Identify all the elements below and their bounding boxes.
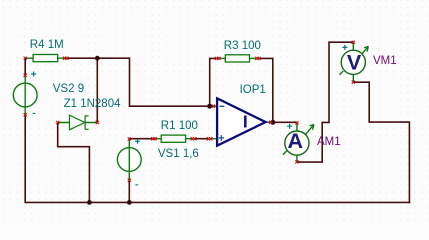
VM1 plus sign	[342, 45, 347, 50]
svg-text:R1 100: R1 100	[161, 120, 198, 132]
svg-text:AM1: AM1	[317, 136, 341, 148]
VM1 top pin mark	[352, 41, 355, 44]
junction node at inverting input	[207, 104, 212, 109]
voltage source VS1 circle	[117, 148, 141, 172]
wire: bottom rail	[24, 201, 410, 203]
AM1 arrowhead	[310, 125, 314, 130]
VS2 minus sign	[33, 112, 36, 114]
resistor R3 body	[225, 55, 249, 62]
zener diode Z1 triangle	[70, 115, 85, 130]
wire: VS2 bottom pin to bottom-left corner	[24, 115, 26, 203]
AM1 bottom pin mark	[295, 160, 298, 163]
junction node A (R4/feed to op-amp)	[95, 56, 100, 61]
svg-text:A: A	[288, 129, 304, 153]
VS1 plus sign	[135, 139, 140, 144]
VM1 leads	[352, 42, 354, 82]
VM1 arrowhead	[364, 46, 368, 51]
op-amp plus sign	[219, 135, 225, 141]
VS2 top pin mark	[24, 74, 27, 77]
wire: VM1 bottom to right rail	[353, 82, 409, 203]
zener diode Z1 leads	[58, 122, 98, 124]
VS2 leads and center line	[24, 75, 26, 115]
wire: AM1 bottom to VM1 top link	[297, 42, 353, 162]
R4 leads	[25, 57, 64, 59]
junction node at op-amp output	[270, 120, 275, 125]
wire: VS1 bottom pin down to bottom rail	[128, 180, 130, 202]
op-amp + pin marks	[207, 137, 210, 140]
pin cross marks	[24, 41, 355, 182]
Z1 right pin mark	[96, 121, 99, 124]
R3 left pin marks	[215, 57, 218, 60]
wire: corner down and right to inverting-input junction	[130, 57, 210, 106]
svg-text:VS2 9: VS2 9	[53, 83, 84, 95]
AM1 plus sign	[287, 124, 292, 129]
R1 left pin marks	[151, 137, 154, 140]
svg-text:R4 1M: R4 1M	[30, 39, 64, 51]
VS1 minus sign	[135, 184, 138, 186]
op-amp IOP1 triangle	[217, 98, 266, 145]
VS2 plus sign	[31, 72, 36, 77]
R4 left pin mark	[24, 57, 27, 60]
wire: R3 right to output junction	[259, 58, 273, 122]
resistor R4 body	[33, 55, 58, 62]
wire: VS1 top pin to R1 left	[129, 138, 152, 140]
wire: feedback left vertical (R3 left to - input)	[210, 58, 217, 106]
svg-text:Z1 1N2804: Z1 1N2804	[64, 98, 122, 110]
voltmeter VM1 circle	[341, 50, 365, 74]
VM1 bottom pin mark	[352, 81, 355, 84]
svg-text:R3 100: R3 100	[224, 40, 261, 52]
op-amp - pin mark	[212, 105, 215, 108]
op-amp IOP1 input stubs	[211, 106, 217, 139]
resistor R1 body	[161, 135, 185, 142]
op-amp output pin mark	[269, 121, 272, 124]
VS1 leads and center line	[128, 139, 130, 180]
VS2 bottom pin mark	[24, 113, 27, 116]
op-amp IOP1 output stub	[266, 121, 271, 123]
wire: top-left corner to VS2 top pin	[24, 58, 26, 75]
op-amp minus sign	[219, 105, 224, 107]
wire: Z1 left branch down to bottom rail	[58, 123, 90, 203]
voltmeter VM1 arrow diagonal	[340, 47, 368, 74]
svg-text:VS1 1,6: VS1 1,6	[158, 148, 199, 160]
R1 right pin marks	[191, 137, 194, 140]
VS1 top pin mark	[128, 137, 131, 140]
AM1 leads	[296, 123, 298, 162]
zener diode Z1 cathode bar with hooks	[85, 116, 89, 130]
ammeter AM1 circle	[285, 131, 309, 155]
R4 right pin marks	[63, 57, 66, 60]
VS1 bottom pin mark	[128, 179, 131, 182]
wire: node A down to Z1 right pin	[96, 58, 98, 122]
AM1 top pin mark	[295, 121, 298, 124]
junction node on bottom rail (VS1 branch)	[127, 200, 132, 205]
junction node on bottom rail (diode branch)	[87, 200, 92, 205]
svg-text:V: V	[347, 50, 362, 74]
svg-text:IOP1: IOP1	[240, 84, 266, 96]
svg-text:I: I	[243, 112, 248, 132]
R1 leads	[153, 138, 194, 140]
svg-text:VM1: VM1	[373, 55, 397, 67]
R3 leads	[217, 57, 258, 59]
wire: output junction to AM1 top	[273, 121, 297, 123]
Z1 left pin mark	[56, 121, 59, 124]
ammeter AM1 arrow diagonal	[283, 125, 314, 155]
R3 right pin marks	[255, 57, 258, 60]
wire: R4 right to corner above VS1 column	[65, 57, 130, 59]
wire: R1 right to op-amp + pin	[195, 138, 209, 140]
voltage source VS2 circle	[13, 83, 37, 107]
